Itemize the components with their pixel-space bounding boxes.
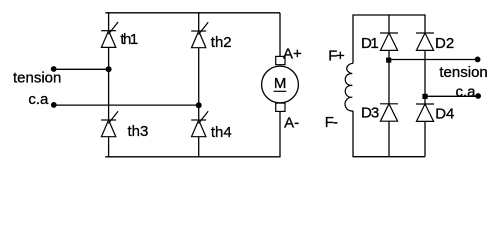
- thyristor th2: [191, 22, 208, 47]
- node: AC bottom terminal dot (right): [475, 93, 481, 99]
- wire: motor branch bottom: [279, 111, 281, 157]
- svg-text:F+: F+: [328, 48, 345, 65]
- wire: field coil branch upper segment: [352, 14, 354, 63]
- svg-text:M: M: [274, 75, 287, 92]
- wire: field coil branch lower segment: [352, 111, 354, 157]
- wire: D3 leg lower segment: [388, 121, 390, 157]
- diode D4: [416, 104, 434, 121]
- motor M1 body: [262, 66, 299, 103]
- diode D3: [380, 104, 398, 121]
- underline of M: [274, 90, 287, 92]
- svg-text:D1: D1: [361, 35, 378, 52]
- svg-text:F-: F-: [325, 114, 338, 131]
- svg-text:tension: tension: [13, 70, 61, 87]
- svg-text:D4: D4: [435, 105, 454, 122]
- svg-text:tension: tension: [439, 64, 487, 81]
- wire: right leg middle segment: [198, 48, 200, 120]
- wire: AC input bottom wire (left): [54, 104, 199, 106]
- diode D2: [416, 33, 434, 50]
- wire: right leg lower segment: [198, 137, 200, 158]
- svg-text:c.a: c.a: [28, 91, 49, 108]
- svg-text:th1: th1: [120, 31, 138, 48]
- motor brush terminal (top): [276, 56, 285, 64]
- wire: left bridge right leg upper segment: [198, 12, 200, 31]
- wire: left bridge top rail: [105, 12, 280, 14]
- svg-text:th2: th2: [211, 34, 232, 51]
- thyristor th4: [191, 111, 208, 136]
- wire: left leg middle segment: [108, 47, 110, 120]
- svg-text:A+: A+: [283, 45, 302, 62]
- wire: D2 leg upper segment: [424, 14, 426, 33]
- svg-text:A-: A-: [284, 114, 299, 131]
- wire: D1-D3 leg middle segment: [388, 50, 390, 103]
- thyristor th1: [101, 22, 118, 47]
- node: junction square between D2 and D4: [422, 94, 427, 99]
- wire: AC input top wire (left): [54, 68, 109, 70]
- svg-text:th3: th3: [128, 123, 149, 140]
- wire: left bridge left leg upper segment: [108, 12, 110, 31]
- wire: right bridge top rail: [353, 14, 425, 16]
- wire: AC output bottom wire (right): [425, 95, 478, 97]
- node: AC bottom terminal dot: [51, 102, 57, 108]
- thyristor th3: [101, 111, 118, 136]
- diode D1: [380, 33, 398, 50]
- node: junction dot on right leg: [196, 102, 202, 108]
- wire: left bridge bottom rail: [105, 156, 280, 158]
- inductor F (field winding): [345, 63, 353, 111]
- node: junction square between D1 and D3: [386, 58, 391, 63]
- svg-text:D3: D3: [361, 104, 379, 121]
- wire: D1 leg upper segment: [388, 14, 390, 33]
- wire: AC output top wire (right): [389, 59, 478, 61]
- motor brush terminal (bottom): [276, 103, 285, 111]
- svg-text:D2: D2: [435, 35, 454, 52]
- wire: right bridge bottom rail: [353, 156, 425, 158]
- wire: D2-D4 leg middle segment: [424, 50, 426, 104]
- node: AC top terminal dot (right): [475, 57, 481, 63]
- wire: D4 leg lower segment: [424, 121, 426, 156]
- node: junction dot on left leg: [106, 66, 112, 72]
- svg-text:c.a: c.a: [456, 83, 477, 100]
- wire: motor branch top: [279, 13, 281, 57]
- wire: left leg lower segment: [108, 137, 110, 158]
- node: AC top terminal dot: [51, 66, 57, 72]
- svg-text:th4: th4: [211, 124, 232, 141]
